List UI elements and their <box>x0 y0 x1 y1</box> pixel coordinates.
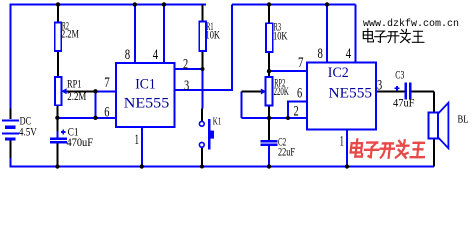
wire: speaker top lead <box>433 92 435 113</box>
wire: K1 upper vertical <box>202 69 204 109</box>
wire: IC1 pin 3 wire <box>175 89 234 91</box>
wire: RP1 wiper horizontal (left part) <box>66 90 96 92</box>
svg-text:4: 4 <box>153 47 159 63</box>
node dot top rail pin4-1 <box>162 2 166 6</box>
wire: bottom ground rail <box>10 166 435 168</box>
wire: IC2 pin 2 wire <box>241 117 307 119</box>
svg-text:47uF: 47uF <box>393 98 415 110</box>
node dot C2 ground <box>267 164 271 168</box>
svg-text:8: 8 <box>318 46 323 62</box>
wire: R1 bottom to pin2 corner <box>202 51 204 69</box>
svg-text:IC2: IC2 <box>328 65 349 81</box>
label C3 plus <box>395 86 400 91</box>
svg-text:1: 1 <box>135 132 140 148</box>
capacitor C2 <box>261 141 278 145</box>
wire: RP2 top stub <box>268 71 270 77</box>
potentiometer RP2 body <box>266 77 273 106</box>
wire: IC2 pin 3 to C3 left <box>376 91 405 93</box>
svg-text:3: 3 <box>184 78 189 94</box>
svg-text:2.2M: 2.2M <box>61 29 79 41</box>
svg-text:C3: C3 <box>395 70 404 82</box>
pin number labels <box>104 46 382 150</box>
svg-text:www.dzkfw.com.cn: www.dzkfw.com.cn <box>363 18 459 30</box>
wire: C3 right to speaker corner <box>411 91 434 93</box>
node dot IC2 pin1 ground <box>345 164 349 168</box>
node dot pin6 notch <box>286 116 290 120</box>
speaker EL <box>428 113 438 139</box>
svg-text:IC1: IC1 <box>135 77 156 93</box>
wire: node X horizontal (RP1 bottom to IC1 pin 6) <box>57 117 117 119</box>
wire: IC2 pin 8 drop <box>326 5 328 63</box>
node dot C1 ground <box>55 164 59 168</box>
svg-text:7: 7 <box>104 75 110 91</box>
svg-text:RP1: RP1 <box>67 79 82 91</box>
potentiometer RP2 wiper arrow <box>261 89 266 95</box>
wire: jog vertical pin7-pin6 <box>95 91 97 118</box>
battery DC source plates <box>2 120 19 139</box>
wire: RP1 wiper to IC1 pin 7 (right part) <box>96 90 118 92</box>
svg-text:6: 6 <box>297 86 303 102</box>
wire: C1 top blue part <box>56 130 58 138</box>
wire: RP1 bottom stub <box>56 105 58 118</box>
wire: left border vertical (battery branch upper) <box>10 5 12 109</box>
node dot pin2-1 corner <box>201 67 205 71</box>
wire: IC1 pin 4 drop <box>163 5 165 64</box>
svg-text:8: 8 <box>125 47 130 63</box>
node dot rail2 pin8-2 <box>325 2 329 6</box>
wire: IC1 pin 8 drop <box>134 5 136 64</box>
svg-text:NE555: NE555 <box>124 95 170 111</box>
wire: R3 top stub <box>268 5 270 24</box>
wire: IC2 pin 7 wire <box>269 70 307 72</box>
potentiometer RP1 body <box>55 77 62 105</box>
label C1 plus <box>61 130 66 135</box>
label red watermark 电子开发王 <box>350 140 426 158</box>
wire: K1 lower vertical <box>201 147 203 166</box>
svg-text:220K: 220K <box>274 86 290 98</box>
svg-text:10K: 10K <box>273 31 288 43</box>
svg-text:3: 3 <box>377 78 382 94</box>
resistor R3 <box>266 23 273 52</box>
wire: RP2 bottom stub <box>268 106 270 119</box>
plus signs <box>61 86 400 135</box>
wire: R1 top stub <box>202 5 204 22</box>
wire: IC2 pin 6 notch <box>288 101 307 118</box>
svg-text:NE555: NE555 <box>329 86 373 102</box>
svg-text:6: 6 <box>104 105 110 121</box>
node dot node X left <box>55 116 59 120</box>
wire: RP2 wiper loop vertical <box>240 92 242 119</box>
node dot IC1 pin1 ground <box>140 164 144 168</box>
switch K1 <box>199 121 204 147</box>
wire: R2 to RP1 <box>57 51 59 77</box>
wire: IC1 pin 1 drop <box>141 127 143 167</box>
svg-text:4: 4 <box>346 46 352 62</box>
wire: IC1 pin 2 wire <box>175 68 204 70</box>
wire: K1 contact stub <box>201 109 203 121</box>
IC2 box <box>307 62 376 129</box>
node dot rail2 R3 <box>267 2 271 6</box>
wire: node X to C1 top <box>56 118 58 131</box>
node dot wiper jog top <box>93 89 97 93</box>
svg-text:2.2M: 2.2M <box>67 91 86 103</box>
svg-text:4.5V: 4.5V <box>19 127 38 139</box>
wire: left border bottom blue segment <box>10 157 12 167</box>
svg-text:2: 2 <box>294 104 299 120</box>
wire: C2 lower <box>268 146 270 167</box>
svg-text:K1: K1 <box>213 117 222 128</box>
wire: RP2 to C2 top <box>268 118 270 140</box>
wire: battery bottom lead <box>10 140 12 158</box>
node dot top rail pin8-1 <box>133 2 137 6</box>
wire: battery top lead <box>10 109 12 119</box>
wire: RP2 wiper horizontal <box>241 91 261 93</box>
svg-text:22uF: 22uF <box>278 147 295 159</box>
capacitor C3 <box>406 83 410 100</box>
svg-text:7: 7 <box>298 55 304 71</box>
wire: R2 top stub <box>57 5 59 24</box>
resistor R1 <box>199 21 206 51</box>
resistor R2 <box>55 23 62 52</box>
potentiometer RP1 wiper arrow <box>61 88 66 94</box>
node dot RP2 bottom/pin2 <box>267 116 271 120</box>
wire: IC2 pin 4 drop <box>355 5 357 63</box>
wire: top V+ rail segment 1 <box>10 4 207 6</box>
wire: R3 bottom to pin7 wire <box>268 52 270 71</box>
node dot K1 ground <box>200 165 204 169</box>
svg-text:BL: BL <box>458 114 469 126</box>
svg-text:2: 2 <box>183 57 188 73</box>
svg-text:1: 1 <box>340 134 345 150</box>
wire: IC2 pin 1 drop <box>346 129 348 166</box>
wire: rail2 left drop to pin3 wire <box>231 5 233 91</box>
svg-text:10K: 10K <box>206 29 221 41</box>
wire: C1 bottom to rail <box>56 143 58 166</box>
wire: top rail segment 2 (IC1 out net) <box>232 4 356 6</box>
node dot R3/RP2/pin7 <box>267 69 271 73</box>
wire: speaker bottom lead <box>433 138 435 166</box>
capacitor C1 <box>50 139 67 143</box>
svg-text:470uF: 470uF <box>67 137 94 149</box>
IC1 box <box>116 63 175 127</box>
label black watermark 电子开发王 <box>363 29 424 43</box>
node dot node X jog <box>93 116 97 120</box>
node dot top rail R2 <box>56 2 60 6</box>
